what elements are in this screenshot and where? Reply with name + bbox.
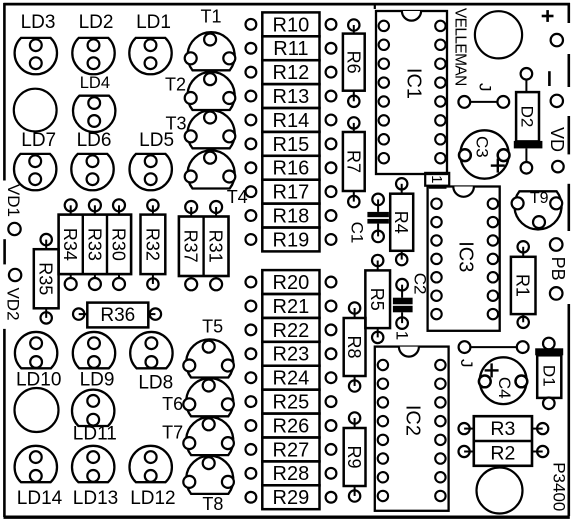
svg-text:T5: T5 (202, 317, 223, 337)
resistor R11 (246, 36, 337, 60)
svg-text:VD: VD (547, 127, 567, 152)
LED LD5 (129, 154, 171, 190)
mounting hole bottom-right (477, 468, 523, 514)
svg-text:R7: R7 (343, 150, 363, 173)
resistor R18 (246, 204, 337, 228)
resistor R1 (511, 241, 536, 328)
svg-text:R16: R16 (273, 158, 310, 180)
resistor R8 (344, 302, 366, 391)
resistor R19 (246, 228, 337, 252)
jumper J2 (457, 341, 528, 367)
label LD4 (80, 74, 110, 92)
mounting hole top-right (475, 11, 522, 58)
label LD1 (136, 12, 171, 33)
VD pad (552, 161, 564, 173)
svg-text:VELLEMAN: VELLEMAN (451, 8, 468, 86)
board outline right edge segment 2 (567, 54, 570, 87)
svg-text:J: J (475, 83, 494, 92)
svg-text:R25: R25 (273, 392, 310, 414)
LED LD11 (72, 390, 114, 426)
svg-text:R32: R32 (142, 228, 162, 261)
svg-text:R6: R6 (343, 51, 363, 74)
svg-text:LD11: LD11 (73, 424, 117, 445)
label LD6 (77, 130, 112, 151)
label LD10 (16, 370, 61, 391)
power + mark (542, 10, 554, 22)
svg-text:R27: R27 (273, 439, 310, 461)
power - pad (551, 95, 563, 107)
board outline right edge segment 1 (top corner) (567, 3, 570, 23)
label LD12 (130, 488, 175, 509)
svg-text:R33: R33 (84, 228, 104, 261)
capacitor C4 (479, 357, 527, 404)
transistor T5 (183, 339, 234, 377)
board outline right edge segment 5 (bottom corner) (567, 304, 570, 516)
IC U2 (IC2) (375, 347, 449, 511)
IC U3 (IC3) (428, 187, 500, 331)
svg-text:R35: R35 (36, 262, 56, 295)
resistor R21 (246, 294, 337, 318)
svg-text:LD1: LD1 (136, 12, 171, 33)
svg-text:R22: R22 (273, 320, 310, 342)
resistors R3 R2 (459, 416, 549, 466)
svg-text:R26: R26 (273, 415, 310, 437)
label LD13 (73, 488, 118, 509)
resistor R6 (343, 19, 365, 107)
LED LD1 (129, 38, 171, 74)
svg-text:1: 1 (392, 331, 411, 340)
svg-text:R24: R24 (273, 368, 310, 390)
capacitor C1 (347, 194, 389, 244)
LED LD7 (14, 154, 56, 190)
svg-text:R1: R1 (513, 274, 533, 297)
label T1 (200, 7, 221, 27)
svg-text:R19: R19 (273, 229, 310, 251)
silkscreen text VELLEMAN (451, 8, 468, 86)
resistor R27 (246, 437, 337, 461)
svg-text:R34: R34 (60, 228, 80, 261)
resistor R13 (246, 84, 337, 108)
label VD2 (left edge) (4, 287, 23, 320)
hole top-left block (14, 89, 57, 132)
resistor R5 (365, 255, 390, 343)
svg-text:R20: R20 (273, 272, 310, 294)
LED LD4 (73, 96, 115, 132)
svg-text:C1: C1 (347, 222, 366, 244)
power - mark (548, 71, 551, 86)
transistor T6 (183, 378, 234, 416)
transistor T1 (185, 32, 236, 70)
svg-text:R18: R18 (273, 205, 310, 227)
transistor T2 (185, 72, 236, 110)
svg-text:D2: D2 (517, 106, 536, 128)
svg-text:T8: T8 (202, 494, 223, 514)
resistor R9 (344, 412, 366, 501)
svg-text:LD7: LD7 (21, 130, 56, 151)
label P3400 (549, 462, 568, 511)
LED LD12 (129, 446, 171, 482)
label VD (right edge) (547, 127, 567, 152)
label LD2 (79, 12, 114, 33)
resistor R12 (246, 60, 337, 84)
svg-text:R13: R13 (273, 86, 310, 108)
svg-text:R17: R17 (273, 182, 310, 204)
IC U1 (IC1) (376, 11, 447, 174)
capacitor C3 (459, 130, 510, 178)
label PB (548, 257, 568, 281)
label T6 (162, 394, 183, 414)
svg-text:VD2: VD2 (4, 287, 23, 320)
svg-text:IC3: IC3 (455, 241, 477, 272)
svg-text:T1: T1 (200, 7, 221, 27)
capacitor C2 (393, 273, 430, 329)
svg-text:LD3: LD3 (21, 12, 56, 33)
svg-text:PB: PB (548, 257, 568, 281)
svg-text:R28: R28 (273, 463, 310, 485)
svg-text:LD13: LD13 (73, 488, 118, 509)
resistors R34 R33 R30 (59, 199, 132, 290)
label LD9 (80, 370, 115, 391)
svg-text:R30: R30 (109, 228, 129, 261)
svg-text:R10: R10 (273, 14, 310, 36)
IC2 pin 1 marker (392, 331, 411, 340)
resistor R23 (246, 342, 337, 366)
board outline left edge segment 2 (3, 239, 6, 264)
LED LD2 (72, 38, 114, 74)
resistor R28 (246, 461, 337, 485)
label T8 (202, 494, 223, 514)
resistor R14 (246, 108, 337, 132)
svg-text:R14: R14 (273, 110, 310, 132)
VD2 pad (9, 269, 21, 281)
PB pad upper (550, 238, 563, 251)
PB pad lower (550, 287, 563, 300)
label LD14 (17, 488, 63, 509)
board outline right edge segment 3 (567, 116, 570, 154)
LED LD10 (15, 332, 57, 368)
resistor R17 (246, 180, 337, 204)
svg-text:T2: T2 (165, 75, 186, 95)
svg-text:C3: C3 (472, 136, 491, 158)
svg-text:R9: R9 (344, 445, 364, 468)
svg-text:R4: R4 (391, 211, 411, 234)
transistor T9 (512, 191, 563, 229)
board outline left edge segment 1 (3, 3, 6, 181)
resistor R29 (246, 485, 337, 509)
svg-text:D1: D1 (539, 365, 558, 387)
label T4 (227, 187, 248, 207)
LED LD9 (73, 332, 115, 368)
board outline top edge (4, 3, 571, 6)
board outline left edge segment 3 (3, 329, 6, 517)
VD1 pad (8, 223, 20, 235)
label T7 (162, 423, 183, 443)
svg-text:T3: T3 (165, 114, 186, 134)
resistor R4 (390, 178, 413, 265)
resistor R35 (34, 234, 59, 324)
diode D1 (535, 338, 563, 409)
label LD3 (21, 12, 56, 33)
board outline top edge notch tick (374, 3, 376, 9)
svg-text:T7: T7 (162, 423, 183, 443)
resistor R22 (246, 318, 337, 342)
transistor T8 (183, 456, 234, 494)
label LD7 (21, 130, 56, 151)
svg-text:R36: R36 (100, 305, 135, 326)
svg-text:T4: T4 (227, 187, 248, 207)
label T5 (202, 317, 223, 337)
LED LD13 (72, 446, 114, 482)
board outline bottom edge (4, 516, 570, 519)
svg-text:R29: R29 (273, 487, 310, 509)
svg-text:T9: T9 (530, 190, 549, 207)
label T3 (165, 114, 186, 134)
svg-text:P3400: P3400 (549, 462, 568, 511)
svg-text:LD6: LD6 (77, 130, 112, 151)
IC3 pin 1 marker box (425, 173, 449, 187)
svg-text:R21: R21 (273, 296, 310, 318)
svg-text:R5: R5 (367, 288, 387, 311)
svg-text:LD2: LD2 (79, 12, 114, 33)
svg-text:R15: R15 (273, 134, 310, 156)
svg-text:T6: T6 (162, 394, 183, 414)
svg-text:R11: R11 (273, 38, 308, 60)
resistor R15 (246, 132, 337, 156)
svg-text:R23: R23 (273, 344, 310, 366)
svg-text:IC2: IC2 (401, 405, 423, 436)
label VD1 (left edge) (4, 184, 23, 217)
label LD5 (139, 130, 174, 151)
svg-text:J: J (457, 359, 476, 368)
svg-text:R8: R8 (344, 335, 364, 358)
label LD8 (138, 373, 173, 394)
resistor R24 (246, 366, 337, 390)
label T2 (165, 75, 186, 95)
svg-text:C4: C4 (495, 377, 514, 399)
label T9 (530, 190, 549, 207)
resistors R37 R31 (179, 201, 229, 290)
transistor T3 (185, 110, 236, 148)
svg-text:LD9: LD9 (80, 370, 115, 391)
svg-text:R3: R3 (490, 418, 515, 440)
power + pad (551, 34, 563, 46)
svg-text:IC1: IC1 (403, 68, 425, 99)
svg-text:R2: R2 (490, 443, 515, 465)
resistor R36 (73, 303, 161, 328)
board outline right edge segment 4 (567, 184, 570, 231)
diode D2 (514, 68, 543, 174)
transistor T7 (183, 417, 234, 455)
svg-text:LD14: LD14 (17, 488, 63, 509)
LED LD8 (130, 332, 172, 368)
resistor R32 (141, 200, 166, 290)
svg-text:R37: R37 (181, 230, 201, 263)
resistor R16 (246, 156, 337, 180)
svg-text:R31: R31 (206, 230, 226, 263)
resistor R7 (343, 117, 365, 207)
transistor T4 (185, 150, 236, 188)
svg-text:LD8: LD8 (138, 373, 173, 394)
svg-text:LD12: LD12 (130, 488, 175, 509)
jumper J1 (458, 83, 509, 108)
resistor R20 (246, 270, 337, 294)
svg-text:LD4: LD4 (80, 74, 110, 92)
LED LD14 (15, 446, 57, 482)
LED LD6 (71, 154, 113, 190)
svg-text:1: 1 (428, 175, 445, 183)
LED LD3 (15, 38, 57, 74)
label LD11 (73, 424, 117, 445)
resistor R10 (246, 12, 337, 36)
svg-text:R12: R12 (273, 62, 310, 84)
resistor R26 (246, 414, 337, 438)
svg-text:VD1: VD1 (4, 184, 23, 217)
resistor R25 (246, 390, 337, 414)
hole bottom-left block (15, 388, 59, 432)
